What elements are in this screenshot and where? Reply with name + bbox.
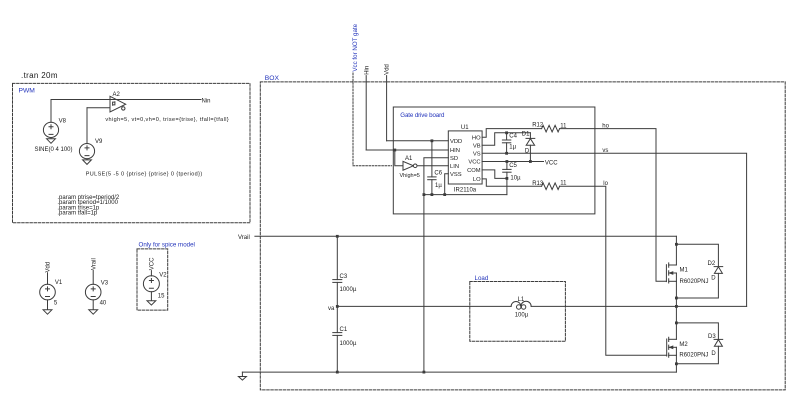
capacitor C6 (428, 141, 436, 195)
wire A2 output/top-input horizontal (51, 99, 201, 101)
wire A1 output to LIN (417, 165, 448, 167)
svg-text:V8: V8 (59, 118, 67, 124)
svg-text:Load: Load (475, 275, 489, 282)
svg-text:D1: D1 (522, 132, 530, 138)
svg-text:C3: C3 (340, 274, 348, 280)
voltage source V2 (143, 276, 159, 292)
node M2 drain/D3 (675, 322, 678, 325)
svg-text:1000µ: 1000µ (340, 341, 357, 347)
svg-text:R13: R13 (532, 181, 544, 187)
svg-text:vs: vs (602, 148, 608, 154)
svg-text:Nin: Nin (202, 98, 211, 104)
wire HO net to R12 (482, 129, 541, 138)
svg-text:C1: C1 (340, 327, 348, 333)
capacitor C5 (503, 162, 511, 179)
svg-text:R6020PNJ: R6020PNJ (679, 353, 708, 359)
wire VSS pin (445, 174, 449, 195)
svg-text:C6: C6 (434, 171, 442, 177)
svg-text:D3: D3 (708, 334, 716, 340)
wire A2 lower input (87, 107, 110, 109)
svg-text:VCC: VCC (545, 161, 558, 167)
node M2 source/D3 (675, 362, 678, 365)
wire V9 vertical (86, 108, 88, 144)
node VB/C4 (505, 131, 508, 134)
svg-text:Only for spice model: Only for spice model (139, 242, 195, 249)
svg-text:10µ: 10µ (510, 176, 521, 182)
svg-text:vhigh=5, vt=0,vh=0, trise={tri: vhigh=5, vt=0,vh=0, trise={trise}, tfall… (105, 117, 228, 123)
svg-text:40: 40 (100, 301, 107, 307)
voltage source V3 (85, 284, 101, 300)
svg-text:D2: D2 (708, 261, 716, 267)
capacitor C1 (333, 306, 342, 372)
ground below V3 (89, 300, 98, 314)
node VSS rail left (423, 193, 426, 196)
resistor R12 (542, 125, 560, 132)
svg-text:BOX: BOX (265, 75, 280, 82)
svg-text:M2: M2 (679, 342, 688, 348)
svg-text:1µ: 1µ (435, 183, 442, 189)
ground below V8 (47, 138, 56, 144)
wire Vrail to C3 (336, 236, 338, 279)
svg-text:Vdd: Vdd (385, 64, 391, 75)
svg-text:.tran 20m: .tran 20m (21, 71, 58, 80)
wire Vrail horizontal (255, 235, 677, 237)
svg-text:L1: L1 (518, 297, 525, 303)
svg-text:V2: V2 (159, 273, 167, 279)
wire Hin to HIN pin (366, 149, 448, 151)
svg-text:va: va (328, 306, 335, 312)
svg-text:LIN: LIN (450, 164, 459, 170)
wire va node right to vs drop (531, 305, 746, 307)
svg-text:HIN: HIN (450, 148, 460, 154)
capacitor C3 (333, 280, 342, 307)
inverter A1 (403, 161, 417, 170)
wire lo to M2 gate (560, 186, 667, 355)
Only-for-spice-model box (137, 249, 168, 310)
wire Vdd to VDD pin (387, 140, 449, 142)
wire va node left (337, 305, 511, 307)
wire VSS rail (424, 194, 507, 196)
transistor M1 (666, 236, 676, 339)
svg-text:VCC: VCC (468, 160, 480, 166)
node M1 source/D2 (675, 297, 678, 300)
svg-text:Vcc for NOT gate: Vcc for NOT gate (352, 23, 359, 71)
resistor R13 (542, 183, 560, 190)
svg-text:D: D (525, 148, 530, 154)
node Hin/A1 tap (393, 149, 396, 152)
svg-text:D: D (711, 275, 716, 281)
node COM/C5 (506, 177, 509, 180)
node Vrail/C3 (336, 235, 339, 238)
wire V2 top (150, 271, 152, 276)
svg-text:Vrail: Vrail (238, 235, 250, 241)
wire C5 bottom to VSS rail (506, 178, 508, 194)
annotation dashed line Vcc for NOT gate (353, 73, 392, 166)
diode D2 (676, 244, 722, 298)
svg-text:A1: A1 (405, 156, 413, 162)
svg-text:COM: COM (467, 168, 481, 174)
node VSS rail C6 (431, 193, 434, 196)
svg-text:1000µ: 1000µ (340, 287, 357, 293)
svg-text:VS: VS (473, 151, 481, 157)
capacitor C4 (502, 133, 510, 154)
voltage source V8 (43, 122, 58, 137)
wire ho to M1 gate (560, 129, 667, 282)
transistor M2 (667, 337, 677, 372)
ground below V1 (43, 300, 52, 314)
svg-text:R12: R12 (532, 123, 544, 129)
svg-text:PWM: PWM (19, 87, 36, 94)
node gnd/SD drop (423, 371, 426, 374)
wire COM net (482, 170, 507, 179)
svg-text:.param tfall=1p: .param tfall=1p (57, 211, 98, 217)
PWM box (13, 83, 251, 222)
node va/C1 (336, 305, 339, 308)
svg-text:ho: ho (602, 123, 609, 129)
svg-text:SINE(0 4 100): SINE(0 4 100) (35, 147, 73, 153)
wire V3 top (92, 270, 94, 284)
svg-text:15: 15 (158, 294, 165, 300)
svg-text:HO: HO (472, 136, 481, 142)
svg-text:V9: V9 (95, 139, 103, 145)
ground below V9 (83, 159, 92, 165)
wire VCC net (482, 161, 543, 163)
svg-text:5: 5 (54, 301, 58, 307)
svg-text:VSS: VSS (450, 172, 462, 178)
node VCC/D1 (529, 160, 532, 163)
svg-text:100µ: 100µ (515, 313, 529, 319)
voltage source V9 (79, 144, 94, 159)
svg-text:11: 11 (560, 123, 567, 129)
ground flag left (238, 372, 246, 380)
wire A1 input tap (395, 150, 403, 166)
svg-text:1µ: 1µ (509, 145, 516, 151)
svg-text:Vhigh=5: Vhigh=5 (400, 173, 420, 179)
svg-text:D: D (711, 351, 716, 357)
wire LO net to R13 (482, 179, 541, 186)
svg-text:VDD: VDD (450, 139, 462, 145)
svg-text:M1: M1 (680, 267, 689, 273)
node gnd/C1 (336, 371, 339, 374)
svg-text:VB: VB (473, 143, 481, 149)
svg-text:Gate drive board: Gate drive board (400, 112, 445, 119)
svg-text:LO: LO (473, 177, 481, 183)
wire SD to ground drop (424, 158, 448, 372)
wire V8 vertical (50, 100, 52, 123)
svg-text:A2: A2 (113, 92, 121, 98)
Load dashed box (470, 282, 566, 342)
wire V1 top (47, 273, 49, 285)
svg-text:Vdd: Vdd (46, 262, 52, 273)
node VS/C4 (505, 152, 508, 155)
svg-text:V3: V3 (101, 280, 109, 286)
node va/M1 source (675, 305, 678, 308)
gate drive board rectangle (393, 107, 595, 214)
wire Hin vertical (365, 76, 367, 150)
wire VS net (482, 153, 746, 306)
node VCC/C5 (506, 160, 509, 163)
BOX outer dashed rectangle (260, 82, 785, 390)
svg-text:IR2110a: IR2110a (454, 188, 477, 194)
wire Vdd vertical (386, 76, 388, 141)
svg-text:C4: C4 (509, 133, 517, 139)
diode D3 (676, 323, 722, 364)
ground rail bottom (242, 371, 676, 373)
op-amp U1 IR2110a body (448, 131, 482, 184)
op-amp A2 schmitt buffer (110, 96, 126, 112)
svg-text:R6020PNJ: R6020PNJ (680, 279, 709, 285)
svg-text:SD: SD (450, 156, 458, 162)
wire VB net (482, 133, 530, 145)
svg-text:lo: lo (603, 181, 608, 187)
svg-text:PULSE(5 -5 0 {ptrise} {ptrise}: PULSE(5 -5 0 {ptrise} {ptrise} 0 {tperio… (86, 171, 203, 177)
svg-text:Hin: Hin (364, 66, 370, 75)
diode D1 (526, 133, 535, 162)
node VSS rail pin (443, 193, 446, 196)
svg-text:11: 11 (560, 181, 567, 187)
svg-text:Vrail: Vrail (91, 258, 97, 270)
node Vdd/C6 (431, 139, 434, 142)
svg-text:C5: C5 (509, 163, 517, 169)
ground below V2 (147, 292, 156, 305)
inductor L1 (511, 301, 531, 309)
svg-text:U1: U1 (461, 125, 469, 131)
node M1 drain/D2 (675, 243, 678, 246)
svg-text:VCC: VCC (150, 257, 156, 270)
svg-text:V1: V1 (55, 280, 63, 286)
voltage source V1 (40, 284, 56, 300)
